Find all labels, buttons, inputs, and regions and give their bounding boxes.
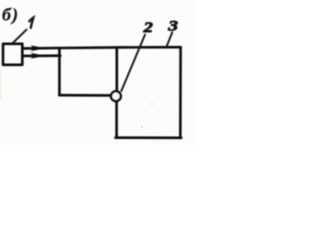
label 1 — [29, 18, 33, 28]
block 1 (small box at left) — [3, 44, 22, 65]
wire (vertical above node 2, right edge of middle rectangle) — [116, 47, 119, 91]
svg-text:2: 2 — [142, 20, 153, 36]
wire (bottom edge of big rectangle 3) — [116, 136, 182, 139]
wire (vertical below node 2, left edge of big rectangle) — [115, 102, 118, 138]
wire (bottom short line from box to vertical) — [23, 54, 60, 57]
wire (left vertical of middle rectangle) — [58, 48, 61, 95]
leader line for label 1 — [13, 30, 26, 43]
svg-text:3: 3 — [167, 18, 179, 34]
wire (top horizontal run from box to right rectangle, shared top edge) — [23, 47, 181, 48]
leader line for label 3 — [166, 32, 172, 47]
svg-text:б): б) — [2, 5, 19, 26]
faint scan smudge near left edge — [0, 70, 2, 100]
wire (bottom edge of middle rectangle to node 2) — [59, 94, 111, 97]
faint scan speck — [151, 103, 153, 105]
leader line for label 2 — [121, 35, 145, 91]
wire (right edge of big rectangle 3) — [179, 47, 182, 138]
arrowhead on top wire — [30, 45, 44, 51]
faint scan speck — [141, 126, 143, 128]
node 2 (circle junction) — [111, 91, 121, 101]
arrowhead on bottom wire — [30, 53, 44, 59]
